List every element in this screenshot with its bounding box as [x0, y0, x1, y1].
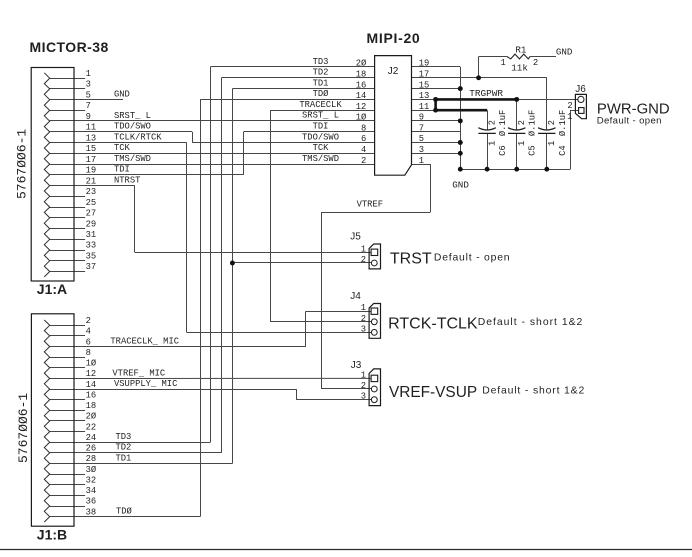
svg-text:15: 15	[419, 80, 430, 90]
svg-text:24: 24	[86, 433, 97, 443]
svg-text:MICTOR-38: MICTOR-38	[30, 39, 109, 55]
svg-text:15: 15	[86, 144, 97, 154]
svg-text:TDO/SWO: TDO/SWO	[114, 122, 151, 132]
svg-text:J2: J2	[388, 66, 399, 77]
svg-text:22: 22	[86, 422, 97, 432]
svg-text:J3: J3	[351, 360, 362, 371]
svg-text:GND: GND	[114, 90, 130, 100]
svg-text:1: 1	[361, 303, 366, 313]
svg-text:12: 12	[86, 369, 97, 379]
svg-text:21: 21	[86, 176, 97, 186]
svg-text:TDI: TDI	[313, 122, 329, 132]
svg-text:29: 29	[86, 219, 97, 229]
svg-text:TD1: TD1	[313, 78, 329, 88]
svg-text:1: 1	[419, 156, 424, 166]
svg-text:11k: 11k	[511, 63, 528, 74]
svg-text:3Ø: 3Ø	[86, 465, 97, 475]
svg-text:2: 2	[517, 120, 527, 125]
svg-text:9: 9	[419, 113, 424, 123]
svg-text:J4: J4	[350, 291, 361, 302]
svg-text:TDØ: TDØ	[116, 506, 133, 516]
svg-text:1Ø: 1Ø	[356, 113, 367, 123]
svg-text:RTCK-TCLK: RTCK-TCLK	[388, 315, 478, 332]
svg-text:VREF-VSUP: VREF-VSUP	[389, 384, 477, 401]
svg-text:4: 4	[361, 145, 366, 155]
svg-text:2: 2	[361, 314, 366, 324]
svg-text:TRST: TRST	[390, 250, 432, 267]
svg-text:R1: R1	[515, 44, 527, 55]
svg-text:17: 17	[86, 155, 97, 165]
svg-text:2Ø: 2Ø	[356, 59, 367, 69]
svg-text:J6: J6	[575, 84, 586, 95]
svg-text:12: 12	[356, 102, 367, 112]
svg-text:25: 25	[86, 198, 97, 208]
svg-text:GND: GND	[452, 179, 469, 190]
svg-text:3: 3	[361, 392, 366, 402]
svg-text:6: 6	[86, 337, 91, 347]
svg-text:Default - open: Default - open	[597, 115, 662, 126]
svg-text:2: 2	[547, 120, 557, 125]
svg-text:GND: GND	[556, 47, 573, 58]
svg-text:13: 13	[419, 91, 430, 101]
svg-text:TCK: TCK	[313, 143, 330, 153]
svg-text:4: 4	[86, 327, 91, 337]
svg-text:1Ø: 1Ø	[86, 359, 97, 369]
svg-text:7: 7	[419, 123, 424, 133]
svg-text:2: 2	[361, 255, 366, 265]
svg-text:11: 11	[419, 102, 430, 112]
svg-text:3: 3	[419, 145, 424, 155]
svg-text:17: 17	[419, 70, 430, 80]
svg-text:19: 19	[419, 59, 430, 69]
svg-text:18: 18	[356, 70, 367, 80]
svg-text:3: 3	[361, 324, 366, 334]
svg-text:5767ØØ6-1: 5767ØØ6-1	[14, 129, 29, 199]
svg-text:6: 6	[361, 134, 366, 144]
svg-text:SRST_ L: SRST_ L	[302, 111, 339, 121]
svg-text:16: 16	[356, 80, 367, 90]
svg-text:16: 16	[86, 390, 97, 400]
svg-text:1: 1	[361, 244, 366, 254]
svg-text:1: 1	[547, 141, 557, 146]
svg-text:7: 7	[86, 101, 91, 111]
svg-text:5: 5	[86, 90, 91, 100]
svg-text:31: 31	[86, 230, 97, 240]
svg-text:SRST_ L: SRST_ L	[114, 111, 151, 121]
svg-text:1: 1	[567, 112, 572, 122]
svg-text:1: 1	[86, 69, 91, 79]
svg-text:TRGPWR: TRGPWR	[469, 88, 503, 99]
svg-text:VTREF_ MIC: VTREF_ MIC	[112, 368, 165, 378]
svg-text:5767ØØ6-1: 5767ØØ6-1	[16, 393, 31, 463]
svg-text:MIPI-20: MIPI-20	[367, 30, 421, 46]
svg-text:26: 26	[86, 444, 97, 454]
svg-text:C5: C5	[528, 145, 538, 156]
svg-text:TMS/SWD: TMS/SWD	[114, 154, 151, 164]
svg-text:1: 1	[501, 58, 506, 68]
svg-text:2: 2	[567, 101, 572, 111]
svg-text:1: 1	[517, 141, 527, 146]
svg-text:VTREF: VTREF	[357, 200, 383, 210]
svg-text:2Ø: 2Ø	[86, 412, 97, 422]
svg-text:9: 9	[86, 112, 91, 122]
svg-text:19: 19	[86, 166, 97, 176]
svg-text:Default - open: Default - open	[434, 252, 510, 263]
svg-text:TD2: TD2	[116, 443, 132, 453]
svg-text:1: 1	[361, 370, 366, 380]
svg-text:J1:A: J1:A	[37, 281, 67, 297]
svg-text:37: 37	[86, 262, 97, 272]
svg-text:TRACECLK: TRACECLK	[299, 100, 342, 110]
svg-text:TRACECLK_ MIC: TRACECLK_ MIC	[110, 336, 179, 346]
svg-text:J1:B: J1:B	[37, 526, 67, 542]
svg-text:33: 33	[86, 241, 97, 251]
svg-text:C6: C6	[498, 145, 508, 156]
svg-text:1: 1	[487, 141, 497, 146]
svg-text:TDO/SWO: TDO/SWO	[302, 132, 339, 142]
svg-text:14: 14	[86, 380, 97, 390]
svg-text:Default - short 1&2: Default - short 1&2	[478, 317, 584, 328]
svg-text:34: 34	[86, 486, 97, 496]
svg-text:2: 2	[86, 316, 91, 326]
svg-text:8: 8	[361, 123, 366, 133]
svg-text:VSUPPLY_ MIC: VSUPPLY_ MIC	[114, 379, 177, 389]
svg-text:Default - short 1&2: Default - short 1&2	[482, 385, 585, 396]
svg-text:32: 32	[86, 475, 97, 485]
svg-text:14: 14	[356, 91, 367, 101]
svg-text:TCK: TCK	[114, 143, 131, 153]
svg-text:2: 2	[361, 156, 366, 166]
svg-text:Ø.1uF: Ø.1uF	[528, 110, 538, 136]
svg-text:Ø.1uF: Ø.1uF	[558, 110, 568, 136]
svg-text:2: 2	[533, 58, 538, 68]
svg-text:TDI: TDI	[114, 165, 130, 175]
svg-text:35: 35	[86, 252, 97, 262]
svg-text:TD3: TD3	[313, 57, 329, 67]
svg-text:TD3: TD3	[116, 432, 132, 442]
svg-text:36: 36	[86, 497, 97, 507]
svg-text:13: 13	[86, 133, 97, 143]
svg-text:8: 8	[86, 348, 91, 358]
svg-text:5: 5	[419, 134, 424, 144]
svg-text:28: 28	[86, 454, 97, 464]
svg-text:TD2: TD2	[313, 68, 329, 78]
svg-text:2: 2	[361, 381, 366, 391]
svg-text:TD1: TD1	[116, 453, 132, 463]
svg-text:TMS/SWD: TMS/SWD	[302, 154, 339, 164]
svg-text:18: 18	[86, 401, 97, 411]
svg-text:TDØ: TDØ	[313, 89, 330, 99]
svg-text:NTRST: NTRST	[114, 175, 140, 185]
svg-text:23: 23	[86, 187, 97, 197]
svg-text:TCLK/RTCK: TCLK/RTCK	[114, 132, 162, 142]
svg-text:27: 27	[86, 209, 97, 219]
svg-text:3: 3	[86, 80, 91, 90]
svg-text:Ø.1uF: Ø.1uF	[498, 110, 508, 136]
svg-text:C4: C4	[558, 145, 568, 156]
svg-text:11: 11	[86, 123, 97, 133]
svg-text:J5: J5	[350, 232, 361, 243]
svg-text:38: 38	[86, 507, 97, 517]
svg-text:2: 2	[487, 120, 497, 125]
